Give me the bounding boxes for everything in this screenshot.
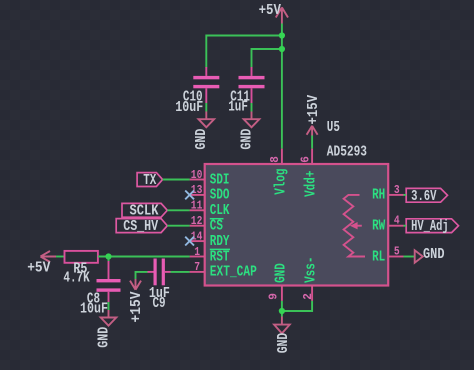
svg-text:+15V: +15V [306,95,322,125]
junction B [279,46,285,52]
wire [108,302,110,310]
svg-text:+5V: +5V [259,3,281,19]
svg-text:14: 14 [191,229,203,243]
wire +5V to R5 [56,256,65,258]
pin 3 RH [388,194,403,196]
wire [311,136,313,149]
capacitor C11 [228,67,264,116]
svg-text:CS: CS [210,219,223,235]
wire C9 left to corner [136,272,148,279]
pin 13 SDO [190,194,205,196]
wire pin2 down and across [282,301,312,311]
svg-text:HV_Adj: HV_Adj [411,219,449,235]
op-amp U5 body (AD5293) [205,164,389,286]
global label HV_Adj [406,219,458,235]
global label 3.6V [406,188,447,204]
junction A [279,32,285,38]
svg-text:7: 7 [194,260,200,274]
wire R5 to RST [98,256,190,258]
capacitor C9 [148,259,171,312]
potentiometer glyph inside U5 [344,195,365,257]
svg-text:AD5293: AD5293 [327,144,367,160]
pin 5 RL [388,256,403,258]
wire to C10 [206,36,282,68]
pin 1 RST [190,256,205,258]
wire pin4 to HV_Adj [404,225,407,227]
capacitor C8 [80,261,121,317]
svg-text:SDO: SDO [210,188,230,204]
pin 9 GND (bottom) [281,286,283,301]
pin 7 EXT_CAP [190,271,205,273]
wire +5V vertical [281,24,283,149]
svg-text:10uF: 10uF [80,301,108,317]
svg-text:+5V: +5V [27,260,50,276]
svg-text:10: 10 [191,168,203,182]
svg-text:U5: U5 [327,120,340,136]
ground (right, pointing right) [415,247,445,263]
global label CS_HV [116,219,167,235]
junction C [105,253,111,259]
svg-text:CLK: CLK [210,203,230,219]
svg-text:GND: GND [96,327,112,348]
svg-text:RH: RH [372,188,385,204]
svg-text:GND: GND [423,247,445,263]
power +5V (left) [27,251,56,276]
pin 10 SDI [190,179,205,181]
junction D [279,308,285,314]
wire CS_HV to pin12 [167,225,189,227]
svg-text:C9: C9 [153,296,166,312]
svg-text:SDI: SDI [210,172,230,188]
pin 4 RW [388,225,403,227]
svg-text:3.6V: 3.6V [411,189,437,205]
wire [205,103,207,112]
svg-text:RW: RW [372,219,385,235]
svg-text:Vdd+: Vdd+ [304,170,320,196]
ground (under C8) [96,310,116,348]
pin 14 RDY [190,240,205,242]
global label SCLK [122,203,167,219]
pin 8 Vlog [281,149,283,164]
no-connect X pin 14 [185,237,194,246]
wire down to C8 [108,257,110,262]
svg-text:SCLK: SCLK [130,204,159,220]
pin 12 CS [190,225,205,227]
svg-text:4.7K: 4.7K [63,270,89,286]
svg-text:RST: RST [210,249,230,265]
wire SCLK to pin11 [167,209,189,211]
svg-text:TX: TX [143,173,156,189]
svg-text:10uF: 10uF [175,100,203,116]
wire pin9 down [281,301,283,317]
svg-text:12: 12 [191,214,203,228]
wiper arrow [357,225,362,227]
svg-text:Vss-: Vss- [304,257,320,283]
wire pin5 to GND [404,256,415,258]
power +15V (top) [306,95,322,136]
svg-text:CS_HV: CS_HV [123,219,158,235]
svg-text:RL: RL [372,249,385,265]
svg-text:+15V: +15V [129,291,145,322]
ground (under C11) [239,112,259,150]
svg-text:8: 8 [268,156,282,163]
wire to C11 [252,49,282,68]
svg-text:Vlog: Vlog [273,169,289,195]
svg-text:GND: GND [239,128,255,149]
wire pin3 to 3.6V [404,194,407,196]
ground (under C10) [194,112,214,150]
svg-text:2: 2 [301,293,315,300]
svg-text:9: 9 [267,293,281,300]
wire TX to pin10 [163,179,190,181]
svg-text:6: 6 [298,156,312,163]
svg-text:1: 1 [194,245,200,259]
svg-text:GND: GND [276,333,292,354]
svg-text:GND: GND [194,128,210,149]
svg-text:EXT_CAP: EXT_CAP [210,265,257,281]
svg-text:5: 5 [394,245,400,259]
pin 2 Vss- [311,286,313,301]
wire C9 to pin7 [171,271,190,273]
svg-text:3: 3 [394,183,400,197]
power +15V (bottom, pointing down) [129,279,145,323]
no-connect X pin 13 [185,191,194,200]
svg-text:11: 11 [191,199,203,213]
resistor R5 [63,251,98,286]
pin 11 CLK [190,209,205,211]
global label TX [137,173,163,189]
pin 6 Vdd+ [311,149,313,164]
power +5V (top) [276,7,288,23]
wire [251,103,253,112]
svg-text:4: 4 [394,214,400,228]
svg-text:RDY: RDY [210,234,230,250]
svg-text:1uF: 1uF [228,100,248,116]
svg-text:13: 13 [191,183,203,197]
capacitor C10 [175,67,219,116]
ground (bottom) [274,317,292,354]
svg-text:GND: GND [273,263,289,283]
